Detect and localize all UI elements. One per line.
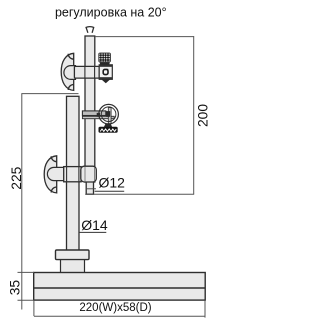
block bottom band [100, 77, 112, 79]
extension tick base top (225/35) [18, 271, 35, 273]
block top band [100, 65, 112, 67]
O14 leader underline [79, 231, 106, 233]
svg-text:225: 225 [9, 166, 24, 189]
foot lower block [61, 260, 85, 273]
rod bottom stub [86, 182, 93, 195]
mount hole glyph [103, 69, 108, 74]
extension line bottom (200) [85, 193, 194, 195]
indicator mount block [99, 65, 112, 80]
svg-text:200: 200 [196, 104, 211, 127]
extension tick at column top (225) [21, 93, 78, 95]
adjustment wheel ring [99, 104, 119, 124]
cone tip under block [101, 79, 110, 83]
main column O14 [67, 96, 80, 250]
base plate [34, 273, 206, 301]
upper clamp: stem through knob [64, 66, 76, 80]
vertical pin through wheel [108, 108, 111, 124]
svg-text:регулировка на 20°: регулировка на 20° [55, 6, 167, 20]
rod pass-through lines in body [84, 67, 86, 78]
stem below wheel [104, 123, 113, 127]
width bracket: right extension [204, 300, 206, 317]
pin hub block [106, 111, 110, 117]
fine adjust arm lower rod [82, 116, 114, 118]
knurled nut below wheel [99, 127, 118, 132]
lower clamp: stem [47, 167, 64, 180]
lower clamp: D-knob [44, 156, 57, 193]
rotating cap symbol on top of rod [86, 27, 95, 33]
svg-text:220(W)x58(D): 220(W)x58(D) [79, 302, 151, 314]
lower clamp barrel around rod [81, 166, 97, 182]
stub joint line [86, 188, 96, 190]
svg-text:Ø12: Ø12 [99, 174, 126, 190]
lower clamp left block [64, 167, 81, 182]
upper clamp body [74, 66, 99, 78]
dark neck under knurl [100, 62, 110, 65]
small dark nub on arm [97, 113, 100, 117]
knurled knob (indicator clamp screw) [99, 53, 111, 62]
dimension line 200 vertical [193, 36, 195, 194]
extension tick base bottom (35) [18, 299, 35, 301]
fine adjust arm upper bar [82, 111, 105, 116]
width bracket: bottom line [34, 315, 205, 317]
svg-text:35: 35 [8, 280, 23, 296]
base face divide line [34, 287, 206, 289]
width bracket: left extension [33, 300, 35, 316]
left dimension line (225 / 35) [21, 94, 23, 310]
upper clamp: D-knob [61, 53, 74, 90]
rod pass-through lines in barrel [84, 167, 86, 181]
column pass-through lines [66, 167, 68, 181]
rod O12 (upper column) [85, 36, 95, 182]
svg-text:Ø14: Ø14 [81, 217, 108, 233]
extension line top (200) [95, 36, 194, 38]
O12 leader underline [95, 190, 125, 192]
foot flange [56, 250, 90, 260]
